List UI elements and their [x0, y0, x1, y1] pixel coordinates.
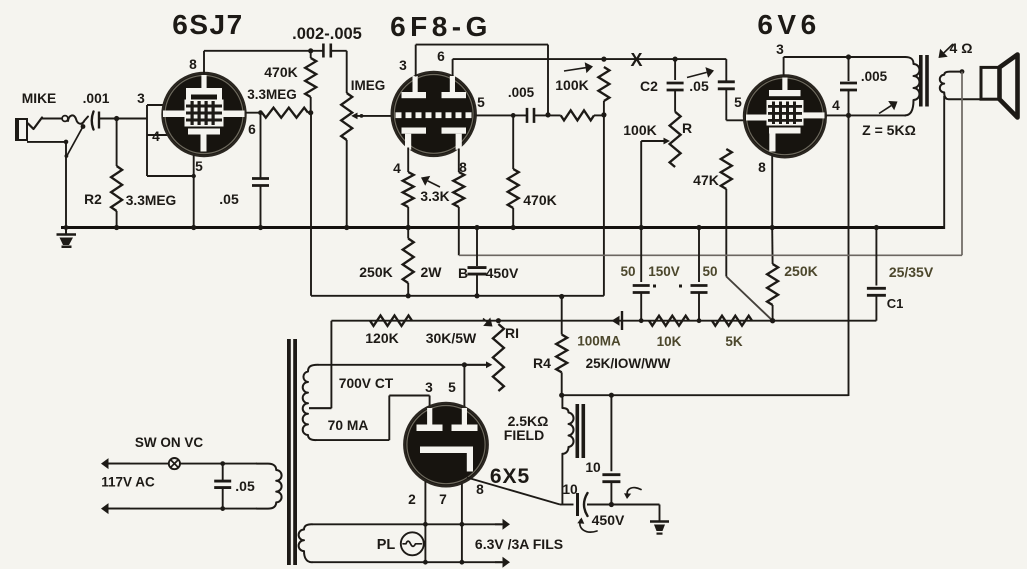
resistor 47K — [721, 149, 732, 277]
pin 5 label (6V6) — [734, 95, 742, 110]
transformer T1 secondary 700V — [303, 365, 318, 440]
wire pin5 6X5 — [463, 365, 465, 407]
wire plate 6V6 — [784, 54, 906, 76]
node jack switch circle — [62, 116, 68, 122]
svg-text:6SJ7: 6SJ7 — [172, 9, 243, 40]
label 10K — [657, 334, 682, 349]
svg-text:3.3MEG: 3.3MEG — [126, 193, 177, 208]
pin 6 label (6SJ7) — [248, 122, 256, 137]
svg-text:150V: 150V — [648, 264, 680, 279]
wire B+ line — [562, 394, 848, 396]
wire switch to primary — [180, 461, 257, 466]
label R2 — [84, 192, 102, 207]
capacitor B 450V — [468, 225, 487, 299]
inductor 2.5K FIELD — [562, 408, 573, 454]
wire B+ riser — [848, 115, 850, 396]
svg-text:47K: 47K — [693, 172, 719, 188]
label 25/35V — [889, 264, 934, 280]
capacitor .005 (coupling) — [527, 108, 534, 123]
label 6V6 — [757, 9, 820, 40]
label 100MA — [577, 334, 621, 349]
wire secondary bottom — [316, 396, 430, 441]
svg-text:RI: RI — [505, 325, 519, 341]
pin 5 label (6F8) — [477, 95, 485, 110]
capacitor .05 (6V6 grid) — [718, 59, 735, 120]
label .05 (C2) — [687, 67, 714, 94]
svg-text:SW ON VC: SW ON VC — [135, 435, 204, 450]
pin 8 label (6F8) — [459, 160, 467, 175]
svg-text:25/35V: 25/35V — [889, 264, 934, 280]
label B 450V — [458, 265, 519, 281]
pin 6 label (6F8) — [437, 49, 445, 64]
wire rectifier output — [561, 395, 563, 408]
svg-text:100K: 100K — [555, 77, 588, 93]
wire B- rail — [311, 113, 604, 296]
svg-text:100MA: 100MA — [577, 334, 621, 349]
resistor R4 25K — [556, 294, 567, 398]
svg-text:10: 10 — [585, 460, 601, 475]
potentiometer R1 — [493, 318, 504, 391]
wire secondary top — [318, 362, 488, 367]
label 250K (cathode) — [784, 263, 817, 279]
label 6X5 — [490, 465, 530, 488]
potentiometer R — [670, 112, 681, 167]
label .001 — [83, 91, 110, 106]
svg-text:450V: 450V — [592, 512, 625, 528]
pin 8 label (6SJ7) — [189, 57, 197, 72]
svg-text:.002-.005: .002-.005 — [292, 25, 362, 43]
label MIKE — [22, 91, 57, 106]
svg-text:25K/IOW/WW: 25K/IOW/WW — [586, 356, 671, 371]
svg-text:8: 8 — [189, 57, 197, 72]
tube U2 6F8-G — [392, 72, 476, 156]
wire pin7 6X5 — [461, 484, 463, 563]
label 470K (screen) — [264, 64, 297, 80]
label 2.5K FIELD — [504, 413, 549, 443]
resistor cathode right (6F8) — [453, 149, 464, 256]
svg-text:6: 6 — [248, 122, 256, 137]
label 3.3MEG (R2) — [126, 193, 177, 208]
capacitor 10 (output) — [602, 393, 620, 508]
svg-text:IMEG: IMEG — [351, 78, 386, 93]
svg-text:R2: R2 — [84, 192, 102, 207]
label 150V — [648, 264, 682, 288]
svg-text:R: R — [682, 120, 692, 136]
transformer T1 primary — [257, 464, 282, 509]
label 6F8-G — [390, 11, 492, 42]
tube U1 6SJ7 — [163, 73, 246, 156]
resistor 100K (horizontal) — [535, 110, 607, 120]
wire jack sleeve — [27, 140, 68, 145]
label 4 ohm — [939, 40, 973, 58]
wire cap to 1MEG — [331, 51, 347, 93]
svg-text:50: 50 — [702, 264, 717, 279]
svg-text:30K/5W: 30K/5W — [426, 330, 477, 346]
node X — [630, 50, 642, 70]
svg-text:4: 4 — [152, 129, 160, 144]
annotation arrow (10 output) — [624, 488, 641, 499]
wiper R — [639, 138, 670, 230]
svg-text:6F8-G: 6F8-G — [390, 11, 492, 42]
wire grid bracket — [147, 105, 196, 178]
svg-text:.05: .05 — [235, 478, 255, 494]
svg-text:250K: 250K — [784, 263, 817, 279]
label .05 (line) — [235, 478, 255, 494]
svg-text:.001: .001 — [83, 91, 110, 106]
svg-text:4 Ω: 4 Ω — [950, 40, 973, 56]
wire cathode 6X5 — [467, 478, 574, 505]
wire speaker return — [459, 72, 962, 256]
label 470K (grid leak) — [523, 192, 556, 208]
svg-text:10K: 10K — [657, 334, 682, 349]
svg-text:6V6: 6V6 — [757, 9, 820, 40]
label 10 (input) — [562, 482, 578, 497]
label R1 — [505, 325, 519, 341]
pin 8 label (6X5) — [476, 482, 484, 497]
wire tip — [42, 118, 62, 120]
svg-text:5: 5 — [734, 95, 742, 110]
wire filament top — [312, 519, 510, 530]
capacitor 50 (second) — [691, 225, 708, 323]
label 6.3V FILS — [475, 536, 563, 552]
svg-text:6.3V /3A FILS: 6.3V /3A FILS — [475, 536, 563, 552]
resistor R2 3.3MEG — [111, 119, 122, 231]
svg-text:C1: C1 — [887, 296, 904, 311]
svg-text:MIKE: MIKE — [22, 91, 57, 106]
label 700V CT — [339, 376, 394, 391]
wire grid 6V6 — [726, 119, 744, 121]
resistor 3.3MEG (plate) — [246, 108, 311, 118]
svg-text:8: 8 — [758, 160, 766, 175]
wire plate 6SJ7 to top — [204, 48, 323, 74]
pin 8 label (6V6) — [758, 160, 766, 175]
wire pin5 (6F8) — [476, 113, 527, 118]
pin 2 label (6X5) — [408, 492, 416, 507]
label 10 (output) — [585, 460, 601, 475]
wire field to cap — [561, 454, 563, 505]
svg-text:50: 50 — [620, 264, 635, 279]
svg-text:5: 5 — [448, 380, 456, 395]
wire secondary to bus — [943, 96, 945, 229]
capacitor C2 — [667, 59, 684, 112]
svg-text:4: 4 — [393, 161, 401, 176]
svg-text:FIELD: FIELD — [504, 427, 544, 443]
transformer T2 core — [919, 55, 929, 107]
svg-text:5: 5 — [195, 159, 203, 174]
switch SW — [169, 458, 180, 469]
capacitor C1 — [867, 225, 886, 321]
wire plate1 6F8 top — [416, 45, 551, 118]
ground (supply) — [650, 505, 669, 535]
resistor 120K — [370, 316, 412, 326]
label 250K 2W — [359, 264, 442, 280]
svg-text:2: 2 — [408, 492, 416, 507]
wire ground bus — [61, 226, 944, 229]
svg-text:6: 6 — [437, 49, 445, 64]
wire to ground 2 — [611, 504, 659, 506]
label 47K — [693, 172, 719, 188]
svg-text:7: 7 — [439, 492, 447, 507]
label 5K — [725, 334, 743, 349]
label 25K/10W/WW — [586, 356, 671, 371]
label 70MA — [328, 418, 369, 433]
svg-text:Z = 5KΩ: Z = 5KΩ — [862, 122, 916, 138]
label PL — [377, 537, 396, 553]
svg-text:PL: PL — [377, 537, 396, 553]
wire cathode 6SJ7 — [191, 155, 196, 230]
wire center tap — [309, 407, 331, 409]
pin 5 label (6X5) — [448, 380, 456, 395]
speaker SPK — [981, 55, 1018, 118]
label 1MEG — [351, 78, 386, 93]
pin 4 label (6F8) — [393, 161, 401, 176]
label 120K — [365, 330, 398, 346]
label C1 — [887, 296, 904, 311]
svg-text:.05: .05 — [689, 78, 709, 94]
svg-text:C2: C2 — [640, 78, 658, 94]
pin 5 label (6SJ7) — [195, 159, 203, 174]
svg-text:450V: 450V — [486, 265, 519, 281]
resistor 3.3K — [403, 148, 414, 231]
svg-text:B: B — [458, 265, 468, 281]
ground (input) — [57, 228, 77, 249]
label Z=5K — [862, 101, 916, 138]
transformer T1 filament winding — [299, 524, 312, 562]
label 30K/5W — [426, 318, 493, 347]
capacitor .005 (output) — [840, 57, 857, 115]
transformer T2 primary — [905, 57, 920, 115]
resistor 250K (cathode) — [767, 229, 778, 324]
label .05 (6SJ7 out) — [219, 191, 239, 207]
svg-text:470K: 470K — [264, 64, 297, 80]
svg-text:5: 5 — [477, 95, 485, 110]
svg-text:70 MA: 70 MA — [328, 418, 369, 433]
potentiometer 1MEG — [341, 93, 352, 230]
label SW ON VC — [135, 435, 204, 450]
wire diagonal to divider — [726, 277, 772, 321]
pin 4 label (6SJ7) — [152, 129, 160, 144]
transformer T1 core — [287, 339, 297, 565]
svg-text:10: 10 — [562, 482, 578, 497]
wire sleeve to ground — [64, 142, 69, 230]
svg-text:.05: .05 — [219, 191, 239, 207]
jack J1 — [16, 118, 42, 141]
pin 7 label (6X5) — [439, 492, 447, 507]
jack switch blade — [65, 124, 86, 158]
svg-text:3: 3 — [399, 58, 407, 73]
wire 117 bottom — [101, 503, 257, 514]
svg-text:3: 3 — [425, 380, 433, 395]
wiper R1 — [464, 361, 492, 368]
resistor 470K (screen) — [305, 51, 316, 116]
label C2 — [640, 78, 658, 94]
label 117VAC — [101, 475, 155, 490]
capacitor .001 — [92, 112, 99, 130]
svg-text:8: 8 — [476, 482, 484, 497]
svg-text:X: X — [630, 50, 642, 70]
svg-text:5K: 5K — [725, 334, 743, 349]
wire filament bottom — [312, 557, 510, 568]
wire plate2 6F8 top — [453, 57, 727, 77]
resistor 10K — [649, 316, 689, 326]
svg-text:.005: .005 — [508, 85, 535, 100]
wire screen 6V6 — [826, 113, 906, 118]
svg-text:700V CT: 700V CT — [339, 376, 394, 391]
wire flex lead — [68, 115, 88, 123]
svg-text:2W: 2W — [421, 264, 443, 280]
label .005 (coupling) — [508, 85, 535, 100]
capacitor 50 (first) — [633, 229, 650, 323]
wiper 1MEG to grid — [351, 113, 392, 120]
capacitor .002-.005 — [323, 44, 330, 58]
label 3.3MEG (plate) — [247, 87, 297, 102]
svg-text:6X5: 6X5 — [490, 465, 530, 488]
tube U4 6X5 — [404, 403, 487, 486]
pin 3 label (6SJ7) — [137, 91, 145, 106]
label 100K (R pot) — [623, 122, 656, 138]
meter point 100MA — [612, 311, 623, 330]
field core — [576, 404, 586, 458]
svg-text:R4: R4 — [533, 355, 551, 371]
pin 3 label (6F8) — [399, 58, 407, 73]
svg-text:250K: 250K — [359, 264, 392, 280]
svg-text:117V AC: 117V AC — [101, 475, 155, 490]
resistor 470K (grid leak) — [508, 115, 519, 230]
svg-text:120K: 120K — [365, 330, 398, 346]
capacitor .05 (line) — [214, 464, 231, 511]
resistor 5K — [712, 316, 752, 326]
svg-text:470K: 470K — [523, 192, 556, 208]
wire pin2 6X5 — [424, 481, 426, 562]
wire bias rail — [331, 320, 876, 322]
label 6SJ7 — [172, 9, 243, 40]
capacitor .05 (6SJ7 out) — [252, 113, 269, 230]
label .002-.005 — [292, 25, 362, 43]
resistor 100K (vertical) — [598, 67, 609, 115]
wire cap to grid — [99, 116, 147, 121]
label 50 (first) — [620, 264, 635, 279]
label 3.3K — [420, 176, 449, 204]
svg-text:3.3K: 3.3K — [420, 189, 449, 204]
node divider junction — [770, 318, 775, 323]
pin 3 label (6X5) — [425, 380, 433, 395]
label 50 (second) — [702, 264, 717, 279]
label R4 — [533, 355, 551, 371]
resistor 250K 2W — [403, 225, 414, 299]
lamp PL — [401, 532, 424, 555]
wire bias rail left leg — [309, 321, 331, 409]
wire cathode 6V6 — [770, 156, 775, 231]
svg-text:100K: 100K — [623, 122, 656, 138]
svg-text:.005: .005 — [861, 69, 888, 84]
tube U3 6V6 — [744, 76, 826, 158]
pin 4 label (6V6) — [832, 98, 840, 113]
label R — [682, 120, 692, 136]
svg-text:3: 3 — [137, 91, 145, 106]
wire bias feed — [603, 115, 605, 296]
svg-text:3: 3 — [776, 42, 784, 57]
wire 117 top — [101, 458, 169, 469]
label 450V — [577, 512, 625, 532]
transformer T2 secondary — [940, 69, 981, 99]
pin 3 label (6V6) — [776, 42, 784, 57]
svg-text:3.3MEG: 3.3MEG — [247, 87, 297, 102]
capacitor 10 (input) — [578, 493, 612, 516]
label .005 (output) — [861, 69, 888, 84]
label 100K (vertical) — [555, 62, 593, 93]
svg-text:4: 4 — [832, 98, 840, 113]
